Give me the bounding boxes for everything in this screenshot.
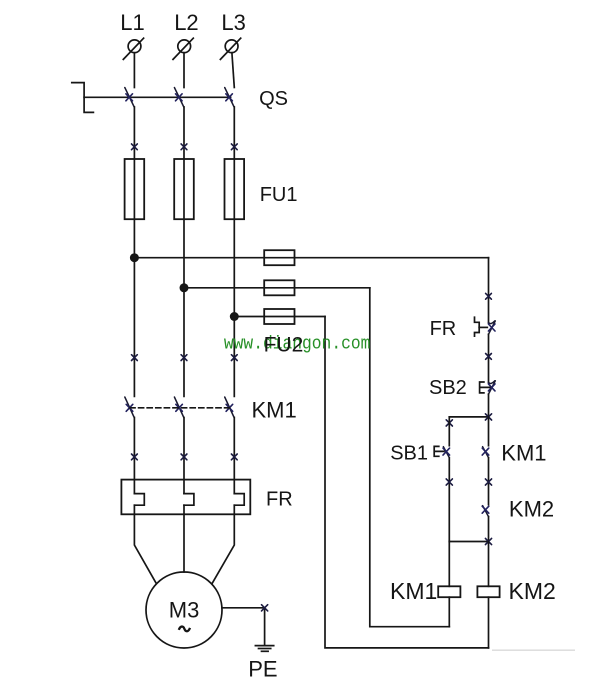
contactor KM1 main pole 2 blade [174,397,183,418]
wire left branch to SB1 [448,417,450,446]
wire L3 terminal to QS [232,53,234,88]
wire L3 KM1 to FR [233,418,235,494]
wire mark L2 below dot [181,355,187,361]
wire mark L3 above FR [231,454,237,460]
KM1 main pole 3 crossing mark [226,404,233,411]
wire right branch to KM1 aux [488,417,490,446]
wire to KM2 coil [488,542,490,587]
branch top rung [449,416,488,418]
SB2 button actuator [480,382,490,393]
wire mark L1 below dot [132,355,138,361]
svg-text:FU1: FU1 [260,184,298,206]
svg-text:SB1: SB1 [390,442,428,464]
coil KM1 [438,586,460,597]
svg-text:KM1: KM1 [252,398,297,423]
FR NC contact mark [488,324,495,331]
SB1 NO contact blade [443,447,449,458]
wire control return KM1 coil leg [370,288,450,627]
node junction dot L2 [180,283,189,292]
wire control return KM2 coil leg [325,317,489,648]
control wire mark upper [486,293,492,299]
wire L2 terminal to QS [183,53,185,88]
FR actuator connector [479,326,487,328]
QS pole 2 crossing mark [176,94,183,101]
ground PE bar 2 [259,648,271,650]
svg-text:FU2: FU2 [264,333,304,356]
thermal relay FR box [121,480,250,515]
svg-text:KM2: KM2 [509,497,554,522]
branch mark left [446,420,452,426]
QS pole 1 blade [125,88,134,108]
terminal L1 [123,38,143,59]
KM1 aux contact blade [483,447,489,458]
left branch wire mark [446,479,452,485]
fuse FU2 element 3 [264,309,294,324]
branch bottom rung [449,541,488,543]
fuse FU2 element 2 [264,280,294,295]
svg-text:KM2: KM2 [509,578,556,604]
svg-text:L2: L2 [174,10,198,35]
SB1 button actuator [434,446,444,456]
wire motor lead right [212,505,234,583]
disconnect switch QS handle bracket [72,83,94,113]
FR NC contact hook [489,321,495,324]
wire motor to PE [222,608,265,646]
faint artifact line [492,649,575,651]
svg-text:M3: M3 [169,597,200,622]
wire KM2 coil down [488,597,490,648]
wire mark L2 above FR [181,454,187,460]
QS pole 2 blade [174,88,183,108]
fuse FU1 pole 2 [174,159,194,219]
wire L1 KM1 to FR [133,418,135,494]
control wire mark middle [486,354,492,360]
SB2 NC contact mark [488,384,495,391]
ground PE bar 3 [262,650,269,652]
svg-text:FR: FR [430,318,457,340]
wire to KM1 coil [448,542,450,587]
wire SB2 to branch node [488,394,490,417]
wire SB1 to bottom rung [448,458,450,542]
PE wire crossing mark [262,605,268,611]
svg-text:KM1: KM1 [501,440,546,465]
FR NC contact blade [489,321,496,334]
svg-text:SB2: SB2 [429,377,467,399]
QS pole 3 blade [225,88,234,108]
node junction dot L1 [130,253,139,262]
fuse FU2 element 1 [264,250,294,265]
SB1 contact mark [443,448,450,455]
coil KM2 [477,586,499,597]
contactor KM1 main pole 1 blade [125,397,134,418]
wire control line 1 from L1 dot to right vertical [134,257,488,259]
wire control line 2 from L2 dot [184,287,370,289]
FR actuator bracket [475,317,480,336]
wire mark L3 above FU1 [231,144,237,150]
wire motor lead left [134,505,156,583]
terminal L3 [220,38,240,59]
svg-text:QS: QS [259,88,288,110]
wire KM2 aux to bottom rung [488,517,490,542]
wire L1 terminal to QS [133,53,135,88]
wire FR contact to SB2 [488,334,490,382]
fuse FU1 pole 1 [125,159,145,219]
terminal L2 [173,38,193,59]
KM1 main linkage dashed [130,407,230,409]
wire L2 KM1 to FR [183,418,185,494]
svg-text:KM1: KM1 [390,578,437,604]
motor M3 [146,572,222,648]
svg-text:PE: PE [248,657,277,682]
KM1 main pole 1 crossing mark [126,404,133,411]
QS pole 3 crossing mark [226,94,233,101]
wire L1 QS to KM1 [133,107,135,396]
wire mark L1 above FU1 [132,144,138,150]
wire KM1 aux to KM2 aux [488,458,490,505]
FR heater element 2 [184,494,194,506]
QS pole 1 crossing mark [126,94,133,101]
svg-text:L3: L3 [221,10,245,35]
SB2 NC contact hook [489,381,495,384]
right branch wire mark [485,479,491,485]
wire motor lead middle [183,505,185,572]
wire mark L2 above FU1 [181,144,187,150]
wire right control vertical top [488,258,490,323]
FR heater element 3 [234,494,244,506]
wire KM1 coil down [448,597,450,627]
wire mark L1 above FR [132,454,138,460]
KM2 aux contact blade [483,506,489,517]
wire L2 QS to KM1 [183,107,185,396]
node junction dot L3 [230,312,239,321]
KM1 main pole 2 crossing mark [176,404,183,411]
SB2 NC contact blade [489,381,496,394]
FR heater element 1 [134,494,144,506]
QS linkage bar [84,96,231,98]
bottom rung node mark [485,538,491,544]
KM1 aux contact mark [482,448,489,455]
svg-text:FR: FR [266,489,293,511]
svg-text:L1: L1 [120,10,144,35]
fuse FU1 pole 3 [225,159,245,219]
wire control line 3 from L3 dot [234,316,325,318]
branch node mark right [485,414,491,420]
motor tilde [179,627,190,632]
ground PE bar 1 [255,645,273,647]
wire L3 QS to KM1 [233,107,235,396]
contactor KM1 main pole 3 blade [225,397,234,418]
wire mark L3 below dot [231,355,237,361]
KM2 aux contact mark [482,506,489,513]
